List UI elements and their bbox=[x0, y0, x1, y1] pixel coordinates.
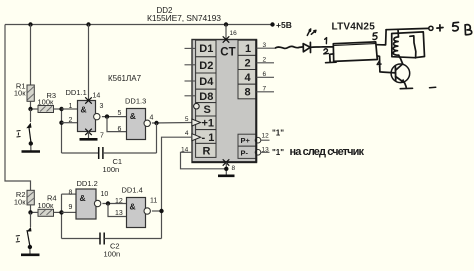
optocoupler U1 LTV4N25 box bbox=[333, 42, 377, 62]
svg-text:- 1: - 1 bbox=[202, 132, 215, 144]
LED VD1 bbox=[303, 44, 310, 52]
wire to DD1.1 pin1 bbox=[62, 108, 78, 110]
wire DD1.2 out to DD1.4 bbox=[102, 203, 126, 205]
wire coil to transistor collector bbox=[399, 55, 403, 64]
wire +5 rail hand bbox=[386, 28, 429, 29]
wire P+ stub bbox=[261, 139, 270, 141]
node dot DD1.4 out bbox=[159, 209, 163, 213]
svg-text:&: & bbox=[81, 105, 87, 115]
wire split down to pin6 bbox=[107, 117, 127, 132]
wire to DD1.2 pin9 bbox=[62, 211, 77, 213]
switch SB2 bottom bbox=[16, 212, 40, 254]
svg-text:R: R bbox=[203, 146, 211, 158]
node dot pin1 bbox=[59, 107, 63, 111]
gate DD1.2 bbox=[76, 179, 108, 219]
svg-text:8: 8 bbox=[245, 86, 251, 98]
svg-text:7: 7 bbox=[100, 133, 104, 140]
gate DD1.3 bbox=[125, 97, 154, 140]
svg-text:К155ИЕ7, SN74193: К155ИЕ7, SN74193 bbox=[147, 13, 221, 23]
node junction rail pin16 bbox=[224, 22, 228, 26]
svg-text:11: 11 bbox=[150, 198, 157, 205]
svg-text:D1: D1 bbox=[199, 43, 213, 55]
wire squiggle from pin3 bbox=[276, 46, 304, 48]
pin 4 hand label + wire to base bbox=[377, 61, 381, 68]
svg-text:10к: 10к bbox=[14, 198, 26, 207]
svg-text:6: 6 bbox=[118, 126, 122, 133]
hand 5 bbox=[453, 22, 459, 31]
svg-text:"1": "1" bbox=[272, 129, 284, 138]
svg-text:&: & bbox=[130, 111, 136, 121]
DD1.2 output inversion circle bbox=[94, 200, 100, 206]
wire split down to pin13 bbox=[108, 204, 127, 217]
svg-text:+1: +1 bbox=[202, 118, 215, 130]
capacitor C2 bbox=[62, 233, 162, 259]
svg-text:13: 13 bbox=[262, 146, 270, 153]
wire DD1.3 out to +1 bbox=[152, 122, 193, 125]
DD1.1 output inversion circle bbox=[94, 113, 100, 119]
svg-text:D8: D8 bbox=[199, 91, 213, 103]
resistor R4 bbox=[38, 194, 57, 217]
svg-text:1: 1 bbox=[69, 103, 73, 110]
chip DD2 counter bbox=[192, 36, 261, 165]
relay contact bbox=[410, 36, 416, 58]
wire to DD1.1 pin2 bbox=[62, 122, 78, 124]
svg-text:4: 4 bbox=[150, 115, 154, 122]
node dot R4/pin9 bbox=[59, 210, 63, 214]
svg-text:2: 2 bbox=[69, 117, 73, 124]
X power pin7 bbox=[85, 129, 92, 135]
pin 5 hand label + wire to +5 rail bbox=[373, 33, 377, 40]
svg-text:2: 2 bbox=[263, 57, 267, 64]
node +5V rail end dot bbox=[270, 22, 274, 26]
ground DD2 pin8 bbox=[218, 163, 236, 176]
svg-text:P-: P- bbox=[241, 148, 249, 157]
svg-text:на след счетчик: на след счетчик bbox=[290, 146, 365, 158]
svg-text:P+: P+ bbox=[241, 136, 251, 145]
wire left rail down to R2 bbox=[5, 25, 31, 191]
svg-text:К561ЛА7: К561ЛА7 bbox=[108, 74, 142, 83]
svg-text:12: 12 bbox=[262, 133, 270, 140]
wire LED to U1 pin1 bbox=[311, 46, 334, 49]
svg-text:D2: D2 bbox=[199, 60, 213, 72]
X power pin14 bbox=[85, 97, 92, 103]
resistor R3 bbox=[38, 91, 57, 113]
svg-text:D4: D4 bbox=[199, 76, 214, 88]
hand-drawn section bbox=[276, 22, 472, 88]
wire output stubs 1,2,4,8 bbox=[257, 48, 276, 92]
svg-text:+5В: +5В bbox=[276, 20, 292, 30]
DD1.4 output inversion circle bbox=[144, 208, 150, 214]
svg-text:10к: 10к bbox=[14, 89, 26, 98]
svg-text:3: 3 bbox=[100, 103, 104, 110]
wire to DD1.2 pin8 bbox=[62, 193, 77, 195]
right cells bbox=[238, 40, 257, 55]
svg-text:DD1.4: DD1.4 bbox=[122, 186, 143, 195]
svg-text:4: 4 bbox=[185, 130, 189, 137]
X power pin8 bbox=[223, 159, 230, 165]
wire rail to R1 bbox=[30, 25, 32, 86]
svg-text:5: 5 bbox=[118, 110, 122, 117]
relay rail stub bbox=[397, 29, 399, 33]
wire P- stub bbox=[261, 151, 270, 153]
svg-text:6: 6 bbox=[263, 71, 267, 78]
svg-text:DD1.1: DD1.1 bbox=[66, 88, 87, 97]
node dot split bbox=[105, 114, 109, 118]
wire riser to C1 bbox=[156, 123, 158, 153]
svg-text:100к: 100к bbox=[38, 201, 55, 210]
gate DD1.4 bbox=[122, 186, 158, 228]
svg-text:&: & bbox=[80, 193, 86, 203]
terminal circle bbox=[429, 26, 433, 30]
wire R1 bottom lead bbox=[30, 101, 32, 109]
+1 dynamic triangle bbox=[192, 119, 201, 126]
node junction rail DD1.1 pin14 bbox=[86, 22, 90, 26]
P+ / P- cells bbox=[238, 134, 257, 146]
wire rail to DD1.1 pin 14 bbox=[88, 25, 90, 101]
capacitor C1 bbox=[62, 147, 157, 174]
resistor R2 bbox=[14, 190, 34, 207]
relay coil bbox=[393, 37, 399, 55]
node junction R2/R4/switch bbox=[28, 210, 32, 214]
wire -1 from DD1.4 bbox=[162, 137, 193, 238]
node dot C1 riser bbox=[154, 121, 158, 125]
LED arrows bbox=[307, 29, 310, 36]
svg-text:100к: 100к bbox=[38, 98, 55, 107]
svg-text:10: 10 bbox=[101, 191, 109, 198]
S inversion circle bbox=[194, 103, 200, 109]
wire R4 leads bbox=[33, 211, 39, 213]
node dot pin2 bbox=[59, 121, 63, 125]
wire rail to DD2 pin 16 bbox=[225, 25, 227, 40]
wire DD1.4 out bbox=[152, 210, 162, 212]
svg-text:DD1.2: DD1.2 bbox=[77, 179, 98, 188]
svg-text:1: 1 bbox=[245, 43, 251, 55]
switch SB1 top bbox=[17, 109, 41, 152]
hand + sign bbox=[437, 25, 443, 31]
svg-text:12: 12 bbox=[115, 198, 123, 205]
svg-text:100n: 100n bbox=[103, 165, 120, 174]
wire +5V top rail bbox=[5, 24, 273, 26]
svg-text:8: 8 bbox=[232, 165, 236, 172]
wire R2 bottom lead bbox=[30, 205, 32, 213]
transistor VT1 bbox=[391, 64, 410, 83]
svg-text:&: & bbox=[130, 201, 136, 211]
hand В bbox=[465, 25, 472, 35]
svg-text:5: 5 bbox=[185, 116, 189, 123]
X power pin16 bbox=[223, 36, 230, 42]
wire node column x61.5 bottom bbox=[61, 194, 63, 238]
gate DD1.1 bbox=[66, 88, 105, 140]
svg-text:"1": "1" bbox=[272, 148, 284, 157]
pin 1 hand label bbox=[325, 38, 327, 44]
minus dash bbox=[430, 86, 436, 88]
svg-text:4: 4 bbox=[245, 72, 252, 84]
svg-text:100n: 100n bbox=[104, 250, 121, 259]
svg-text:14: 14 bbox=[181, 146, 189, 153]
node junction R1/R3/switch bbox=[28, 107, 32, 111]
pin 2 hand label + wire + ground bbox=[324, 49, 329, 54]
wire R3 leads bbox=[33, 108, 39, 110]
svg-text:7: 7 bbox=[263, 86, 267, 93]
left cells bbox=[196, 40, 216, 57]
svg-text:2: 2 bbox=[245, 57, 251, 69]
svg-text:S: S bbox=[204, 104, 211, 116]
relay K1 box bbox=[392, 32, 425, 58]
ground DD1.1 pin7 bbox=[80, 138, 98, 141]
wire emitter to ground bbox=[405, 83, 407, 88]
wire R pin14 to ground bbox=[181, 152, 227, 169]
svg-text:CT: CT bbox=[220, 47, 235, 59]
svg-text:8: 8 bbox=[69, 189, 73, 196]
wire D input stubs bbox=[185, 48, 196, 95]
DD1.3 output inversion circle bbox=[144, 120, 150, 126]
resistor R1 bbox=[14, 82, 34, 102]
wire node column x61.5 top bbox=[61, 109, 63, 153]
-1 dynamic triangle bbox=[192, 134, 201, 141]
node dot split bbox=[106, 201, 110, 205]
svg-text:14: 14 bbox=[93, 92, 101, 99]
svg-text:3: 3 bbox=[263, 42, 267, 49]
svg-text:9: 9 bbox=[69, 204, 73, 211]
svg-text:DD1.3: DD1.3 bbox=[125, 97, 146, 106]
svg-text:13: 13 bbox=[115, 210, 123, 217]
wire DD1.1 out to DD1.3 bbox=[102, 116, 127, 118]
svg-text:LTV4N25: LTV4N25 bbox=[332, 21, 376, 32]
node junction rail to R1 bbox=[28, 22, 32, 26]
svg-text:16: 16 bbox=[230, 30, 238, 37]
